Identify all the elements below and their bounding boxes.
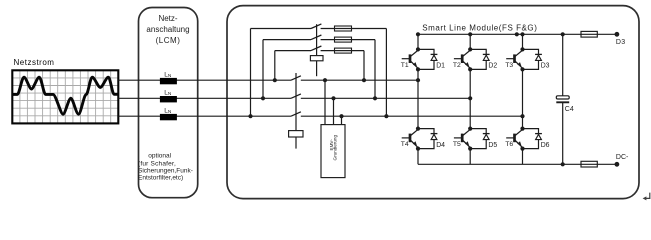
transistor T4 bbox=[409, 134, 412, 143]
node DC+ leg2 bbox=[468, 32, 472, 36]
line contactor actuator box bbox=[289, 131, 303, 137]
node DC- C4 tap bbox=[561, 162, 565, 166]
node T4 collector bbox=[416, 127, 420, 131]
svg-text:T5: T5 bbox=[453, 141, 461, 148]
switch line contactor pole 1 bbox=[291, 76, 301, 80]
svg-text:optional: optional bbox=[148, 152, 171, 159]
node DC+ extra bbox=[515, 32, 519, 36]
node T5 emitter bbox=[468, 147, 472, 151]
switch line contactor pole 2 bbox=[291, 94, 301, 98]
transistor T2 bbox=[461, 54, 464, 63]
transistor T5 bbox=[461, 134, 464, 143]
node T3 collector bbox=[520, 47, 524, 51]
node drop1-phase junction bbox=[384, 114, 388, 118]
line contactor linkage bbox=[295, 73, 297, 131]
wire branch2 left segment bbox=[263, 39, 311, 41]
svg-text:T4: T4 bbox=[401, 141, 409, 148]
inductor LN (phase L1) bbox=[160, 78, 177, 84]
svg-text:DC-: DC- bbox=[616, 154, 629, 161]
svg-text:Netzstrom: Netzstrom bbox=[14, 58, 55, 67]
wire phase L1 (left of contactor) bbox=[118, 79, 291, 81]
node T3 emitter bbox=[520, 67, 524, 71]
diode D2 loop wire bbox=[470, 49, 486, 69]
svg-text:D3: D3 bbox=[616, 39, 626, 46]
node EMV tap junction 1 bbox=[323, 78, 327, 82]
diode D6 bbox=[535, 133, 542, 135]
wire leg3 top bbox=[522, 34, 524, 49]
switch line contactor pole 3 bbox=[291, 112, 301, 116]
node drop2-phase junction bbox=[373, 96, 377, 100]
precharge contactor actuator box bbox=[310, 56, 323, 61]
svg-text:D1: D1 bbox=[436, 63, 445, 70]
svg-text:D3: D3 bbox=[541, 63, 550, 70]
node T6 emitter bbox=[520, 147, 524, 151]
EMV network box U-EMV bbox=[321, 125, 345, 178]
wire EMV tap from phase L3 bbox=[341, 116, 343, 124]
diode D5 bbox=[483, 133, 490, 135]
wire EMV tap from phase L2 bbox=[333, 98, 335, 124]
node T5 collector bbox=[468, 127, 472, 131]
wire leg1 bottom bbox=[417, 149, 419, 165]
fuse DC- bbox=[581, 161, 597, 167]
precharge actuator stub bbox=[316, 61, 318, 76]
precharge contactor linkage bbox=[316, 24, 318, 55]
wire leg3 middle bbox=[522, 69, 524, 128]
return mark bbox=[645, 193, 650, 199]
node T4 emitter bbox=[416, 147, 420, 151]
LCM module box bbox=[139, 8, 198, 198]
capacitor C4 bbox=[556, 96, 569, 99]
switch precharge contact 1 bbox=[311, 24, 321, 29]
inductor LN (phase L3) bbox=[160, 114, 177, 120]
wire leg3 bottom bbox=[522, 149, 524, 165]
svg-text:D6: D6 bbox=[541, 142, 550, 149]
switch precharge contact 2 bbox=[311, 35, 321, 40]
wire phase L2 (right of contactor) bbox=[301, 97, 470, 99]
wire DC+ bus bbox=[418, 33, 617, 35]
node DC+ C4 tap bbox=[561, 32, 565, 36]
svg-text:Smart Line Module(FS F&G): Smart Line Module(FS F&G) bbox=[422, 24, 537, 33]
switch precharge contact 3 bbox=[311, 46, 321, 51]
wire leg1 middle bbox=[417, 69, 419, 128]
node phase L1 to leg1 bbox=[416, 78, 420, 82]
svg-text:T2: T2 bbox=[453, 62, 461, 69]
wire C4 lower bbox=[562, 103, 564, 165]
scope box frame bbox=[12, 70, 118, 123]
wire phase L2 (left of contactor) bbox=[118, 97, 291, 99]
waveform trace (Netzstrom) bbox=[12, 77, 117, 114]
wire riser branch2 from phase L2 bbox=[262, 40, 264, 99]
wire phase L3 (right of contactor) bbox=[301, 115, 523, 117]
svg-text:T3: T3 bbox=[505, 62, 513, 69]
diode D4 bbox=[431, 133, 438, 135]
wire branch2 drop to phase L2 bbox=[374, 40, 376, 99]
inductor LN (phase L2) bbox=[160, 96, 177, 102]
svg-text:T1: T1 bbox=[401, 62, 409, 69]
svg-text:D5: D5 bbox=[488, 142, 497, 149]
fuse/resistor precharge 3 bbox=[335, 48, 352, 53]
terminal DC- bbox=[615, 162, 620, 167]
diode D6 loop wire bbox=[523, 129, 539, 149]
node T2 collector bbox=[468, 47, 472, 51]
transistor T3 bbox=[513, 54, 516, 63]
svg-text:T6: T6 bbox=[505, 141, 513, 148]
scope grid bbox=[12, 70, 118, 123]
wire branch3 drop to phase L1 bbox=[363, 51, 365, 81]
svg-text:(fur Schafer,: (fur Schafer, bbox=[138, 160, 176, 167]
node T2 emitter bbox=[468, 67, 472, 71]
node DC+ leg1 bbox=[416, 32, 420, 36]
wire DC- bus bbox=[418, 163, 617, 165]
diode D4 loop wire bbox=[418, 129, 434, 149]
node T1 collector bbox=[416, 47, 420, 51]
node EMV tap junction 2 bbox=[331, 96, 335, 100]
diode D2 bbox=[483, 53, 490, 55]
fuse/resistor precharge 1 bbox=[335, 26, 352, 31]
wire branch3 right segment bbox=[321, 50, 364, 52]
wire leg2 top bbox=[469, 34, 471, 49]
wire EMV tap from phase L1 bbox=[324, 80, 326, 124]
node phase L2 to leg2 bbox=[468, 96, 472, 100]
node riser3-phase junction bbox=[273, 78, 277, 82]
transistor T6 bbox=[513, 134, 516, 143]
svg-text:D4: D4 bbox=[436, 142, 445, 149]
node drop3-phase junction bbox=[362, 78, 366, 82]
wire branch1 drop to phase L3 bbox=[385, 29, 387, 117]
diode D1 bbox=[431, 53, 438, 55]
svg-text:C4: C4 bbox=[565, 106, 574, 113]
wire phase L1 (right of contactor) bbox=[301, 79, 418, 81]
wire leg2 bottom bbox=[469, 149, 471, 165]
fuse DC+ bbox=[581, 31, 597, 37]
wire phase L3 (left of contactor) bbox=[118, 115, 291, 117]
node phase L3 to leg3 bbox=[520, 114, 524, 118]
wire riser branch3 from phase L1 bbox=[274, 51, 276, 81]
node riser1-phase junction bbox=[248, 114, 252, 118]
wire leg1 top bbox=[417, 34, 419, 49]
node T1 emitter bbox=[416, 67, 420, 71]
svg-text:anschaltung: anschaltung bbox=[146, 25, 189, 34]
svg-text:Sicherungen,Funk-: Sicherungen,Funk- bbox=[138, 167, 193, 174]
wire branch3 left segment bbox=[275, 50, 311, 52]
diode D1 loop wire bbox=[418, 49, 434, 69]
svg-text:Grundierung: Grundierung bbox=[333, 135, 338, 161]
node EMV tap junction 3 bbox=[339, 114, 343, 118]
diode D5 loop wire bbox=[470, 129, 486, 149]
node DC+ leg3 bbox=[520, 32, 524, 36]
wire leg2 middle bbox=[469, 69, 471, 128]
terminal D3 (DC+) bbox=[615, 32, 620, 37]
svg-text:Entstorfilter,etc): Entstorfilter,etc) bbox=[138, 174, 183, 181]
svg-text:D2: D2 bbox=[488, 63, 497, 70]
line contactor actuator stub bbox=[295, 137, 297, 149]
node riser2-phase junction bbox=[261, 96, 265, 100]
svg-text:Netz-: Netz- bbox=[158, 14, 177, 23]
wire branch1 right segment bbox=[321, 28, 387, 30]
Smart Line Module box bbox=[227, 6, 639, 199]
fuse/resistor precharge 2 bbox=[335, 37, 352, 42]
wire branch1 left segment bbox=[251, 28, 312, 30]
wire riser branch1 from phase L3 bbox=[250, 29, 252, 117]
diode D3 bbox=[535, 53, 542, 55]
svg-text:(LCM): (LCM) bbox=[156, 36, 181, 45]
diode D3 loop wire bbox=[523, 49, 539, 69]
wire C4 upper bbox=[562, 34, 564, 96]
node T6 collector bbox=[520, 127, 524, 131]
wire branch2 right segment bbox=[321, 39, 375, 41]
transistor T1 bbox=[409, 54, 412, 63]
